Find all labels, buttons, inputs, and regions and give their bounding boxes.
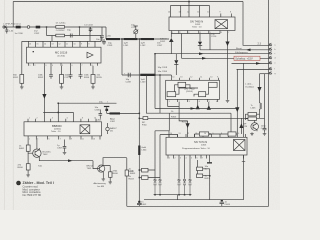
wire arrow from IC1 pin down to IC4 xyxy=(43,66,45,122)
svg-text:11: 11 xyxy=(66,44,68,46)
svg-text:15: 15 xyxy=(37,44,39,46)
svg-text:13: 13 xyxy=(93,138,95,140)
svg-text:8: 8 xyxy=(82,118,83,120)
svg-text:13: 13 xyxy=(179,133,181,135)
IC3 internal wiring xyxy=(175,85,209,97)
wire supply line y=63.4 to terminal xyxy=(232,62,270,64)
svg-text:C210: C210 xyxy=(211,36,217,38)
svg-text:C207: C207 xyxy=(157,45,163,47)
IC5 bottom pin ticks xyxy=(168,155,244,162)
wire IC2 bottom bus xyxy=(171,33,220,35)
filter F401 box on mid line xyxy=(143,117,148,120)
polarized cap C402 on x=139.3 xyxy=(138,201,140,203)
wire stub rail to IC2 bus xyxy=(188,2,190,6)
svg-text:14: 14 xyxy=(168,12,170,14)
svg-text:6: 6 xyxy=(216,101,217,103)
svg-text:L202: L202 xyxy=(141,45,147,47)
svg-text:10n C206: 10n C206 xyxy=(158,71,168,73)
svg-text:C211: C211 xyxy=(131,27,137,29)
resistor R405 xyxy=(125,170,128,176)
wire IF filter line xyxy=(122,75,171,78)
svg-text:6: 6 xyxy=(197,157,198,159)
wire long vertical x=139.3 lower part xyxy=(138,113,140,203)
svg-text:16: 16 xyxy=(29,44,31,46)
IC4 top pin ticks xyxy=(28,119,96,122)
IC3 gate A xyxy=(178,82,186,87)
svg-text:2.3: 2.3 xyxy=(258,43,262,46)
svg-text:C307: C307 xyxy=(57,148,63,150)
supply bar below IC5 pin xyxy=(207,162,212,163)
vertical from IC2 pin 5 xyxy=(209,34,211,50)
svg-text:10: 10 xyxy=(207,12,209,14)
capacitor C204 on line A xyxy=(89,27,93,32)
node junction IF line / verticals xyxy=(154,74,155,75)
resistor R411 right below IC5 xyxy=(197,174,203,178)
wire T401 collector up and right xyxy=(103,158,127,166)
svg-text:Teiler : 10: Teiler : 10 xyxy=(192,26,202,29)
red box switching voltage xyxy=(234,56,260,60)
svg-text:10: 10 xyxy=(204,133,206,135)
svg-text:2: 2 xyxy=(35,65,36,67)
wire jogs from IC3 area to trimmer verticals xyxy=(155,131,178,138)
svg-text:13: 13 xyxy=(179,12,181,14)
svg-text:Oszillator: Oszillator xyxy=(245,86,254,89)
svg-text:C306: C306 xyxy=(95,109,101,111)
inductor L201 black bar xyxy=(124,38,138,40)
svg-text:C1 C204: C1 C204 xyxy=(84,25,93,27)
svg-text:No.7509 377 80: No.7509 377 80 xyxy=(23,193,42,197)
capacitor C307 below IC4 xyxy=(63,140,67,152)
svg-text:Teiler : 10: Teiler : 10 xyxy=(51,130,61,133)
svg-text:3: 3 xyxy=(37,138,38,140)
svg-text:L405: L405 xyxy=(251,107,257,109)
trimmer column 3 xyxy=(178,159,180,179)
wire count frequency line to terminal xyxy=(155,53,269,55)
node junctions line A xyxy=(46,26,47,27)
wire reset arrow into IC5 xyxy=(179,102,188,137)
svg-text:7: 7 xyxy=(228,32,229,34)
svg-text:R400: R400 xyxy=(18,167,24,169)
svg-text:R403: R403 xyxy=(129,178,135,180)
svg-text:C213: C213 xyxy=(65,77,71,79)
trimmer column 5 xyxy=(189,159,191,179)
wire input line A xyxy=(4,26,106,28)
svg-text:2: 2 xyxy=(175,157,176,159)
svg-text:R202: R202 xyxy=(38,77,44,79)
svg-text:7: 7 xyxy=(202,157,203,159)
wires around R410/R411 xyxy=(198,160,210,200)
svg-text:R405: R405 xyxy=(130,173,136,175)
page fold lines xyxy=(4,0,6,210)
svg-text:Reset: Reset xyxy=(236,47,242,50)
node junctions between bars xyxy=(121,38,123,40)
transistor T400 xyxy=(251,123,259,131)
wire trimmer bus xyxy=(154,194,192,196)
title block logo xyxy=(16,181,21,186)
svg-text:9: 9 xyxy=(71,138,72,140)
IC2 divider crossed box xyxy=(215,20,228,29)
svg-text:5: 5 xyxy=(62,65,63,67)
svg-text:R303: R303 xyxy=(171,117,177,119)
svg-text:Abstimmung: Abstimmung xyxy=(94,182,107,185)
wire left drop to input line xyxy=(12,2,14,28)
wire verticals B-C xyxy=(52,36,101,42)
wire bottom bus B xyxy=(127,205,269,207)
wire vertical A-C at 90 xyxy=(89,27,91,41)
diode up arrow from IC3 pin to mid line xyxy=(197,102,199,109)
wire vertical from IC3 pin1 down left of IC5 xyxy=(168,113,170,131)
capacitor C208 series bars on IF line xyxy=(128,73,130,78)
svg-text:5: 5 xyxy=(209,101,210,103)
svg-text:L200: L200 xyxy=(106,35,112,37)
connector circle on input line xyxy=(27,26,30,29)
inductor L203 black bar on IF line xyxy=(140,74,155,76)
resistor R403 left of IC5 xyxy=(142,176,149,180)
svg-text:8: 8 xyxy=(89,44,90,46)
wire IC2 top pin stubs xyxy=(171,6,232,18)
svg-text:13: 13 xyxy=(180,76,182,78)
IC3 top pin ticks xyxy=(171,78,218,81)
svg-text:12: 12 xyxy=(59,44,61,46)
inductor L200 black bar xyxy=(106,38,120,40)
IC1 amplifier MC10116 D200 body xyxy=(27,47,102,63)
svg-text:9: 9 xyxy=(220,12,221,14)
zener D205 above IC3 xyxy=(174,54,178,75)
svg-text:10: 10 xyxy=(210,76,212,78)
wire switching voltage line to terminal xyxy=(182,34,270,59)
svg-text:b: b xyxy=(275,49,276,51)
diode D203a below IC2 pin 11 xyxy=(198,34,202,50)
svg-text:L302: L302 xyxy=(110,121,116,123)
wire IC4 top bus xyxy=(43,103,73,122)
svg-text:R201: R201 xyxy=(13,77,19,79)
arrow down on pin 8 wire xyxy=(225,42,229,47)
svg-text:9: 9 xyxy=(81,44,82,46)
svg-text:R406: R406 xyxy=(113,173,119,175)
wire right page bus xyxy=(268,0,270,206)
IC3 bottom pin ticks xyxy=(168,99,218,102)
svg-text:SN 7490 N: SN 7490 N xyxy=(190,19,203,23)
resistor R410 right below IC5 xyxy=(197,167,203,170)
svg-text:C208: C208 xyxy=(126,82,132,84)
svg-text:12: 12 xyxy=(190,76,192,78)
wires from R402/R403 to trimmer columns xyxy=(148,170,160,178)
resistor R201 on line A xyxy=(56,26,65,29)
svg-text:1: 1 xyxy=(169,157,170,159)
svg-text:e: e xyxy=(275,63,276,65)
svg-text:L203: L203 xyxy=(141,82,147,84)
capacitor C205 series on line B xyxy=(70,34,72,38)
wire oscillator line y=73.7 to terminal xyxy=(260,73,270,75)
wire long mid horizontal xyxy=(139,117,264,119)
IC3 gate C xyxy=(167,92,176,97)
svg-text:2: 2 xyxy=(180,32,181,34)
wire choke line xyxy=(107,112,140,114)
svg-text:T402: T402 xyxy=(43,154,49,156)
svg-text:C202: C202 xyxy=(34,33,40,35)
transistor T401 xyxy=(98,165,105,172)
capacitor to bus C at x=102 xyxy=(100,27,104,41)
trimmer C211 above rail xyxy=(134,26,138,39)
svg-text:6: 6 xyxy=(67,118,68,120)
svg-text:2: 2 xyxy=(179,101,180,103)
IC4 divider BB8060 D400 body xyxy=(24,122,102,136)
svg-text:6: 6 xyxy=(238,133,239,135)
IC4 divider crossed box xyxy=(80,125,90,134)
wire IC2 top bus xyxy=(171,5,210,7)
svg-text:3: 3 xyxy=(188,32,189,34)
svg-text:7: 7 xyxy=(60,138,61,140)
svg-text:11: 11 xyxy=(196,133,198,135)
resistor R400 below xyxy=(26,164,30,170)
IC1 internal dot xyxy=(33,51,34,52)
svg-text:v. ZFM -Filterverst.: v. ZFM -Filterverst. xyxy=(3,22,22,25)
svg-text:D202: D202 xyxy=(160,41,166,43)
svg-text:1: 1 xyxy=(29,138,30,140)
svg-text:4: 4 xyxy=(186,157,187,159)
svg-text:11: 11 xyxy=(197,12,199,14)
diode D6 right of IC4 xyxy=(106,127,109,130)
resistor R401 below IC4 xyxy=(26,145,30,151)
capacitor C305 to IC4 pin xyxy=(99,110,103,119)
IC1 internal buffer triangle xyxy=(87,52,93,58)
capacitor C209 to ground left of bar xyxy=(102,39,106,45)
node junction on IC4 bus xyxy=(58,112,60,114)
wire IC3 enclosure loop to mid-right xyxy=(146,75,231,113)
wire vertical x=155 count feed xyxy=(154,54,156,75)
svg-text:4: 4 xyxy=(52,118,53,120)
IC2 counter SN7490 D203 body xyxy=(169,17,235,31)
svg-text:5: 5 xyxy=(49,138,50,140)
svg-text:(D400): (D400) xyxy=(54,129,61,131)
svg-text:4: 4 xyxy=(52,65,53,67)
svg-text:6: 6 xyxy=(72,65,73,67)
wire bus C above IC1 xyxy=(22,40,101,42)
svg-text:7: 7 xyxy=(82,65,83,67)
svg-text:C305: C305 xyxy=(96,120,102,122)
IC3 quad gate SN7400 D204 body xyxy=(166,80,220,99)
svg-text:a: a xyxy=(275,44,276,46)
wire osc vertical x=264.5 xyxy=(264,74,266,129)
svg-text:14: 14 xyxy=(172,76,174,78)
IC5 divider crossed box xyxy=(234,140,246,151)
svg-text:(D 200): (D 200) xyxy=(58,56,66,58)
svg-text:12: 12 xyxy=(187,133,189,135)
svg-text:SN 7474 N: SN 7474 N xyxy=(194,140,207,144)
IC3 gate D xyxy=(199,92,206,97)
terminal row right edge xyxy=(269,43,272,46)
svg-text:3: 3 xyxy=(180,157,181,159)
IC5 programmable divider SN7474 D405 body xyxy=(166,137,247,155)
svg-text:Reset: Reset xyxy=(182,121,188,124)
svg-text:R402: R402 xyxy=(129,171,135,173)
trimmer column 2 xyxy=(159,75,161,113)
svg-text:1: 1 xyxy=(29,118,30,120)
svg-text:C403: C403 xyxy=(225,204,231,206)
svg-text:(D204): (D204) xyxy=(186,91,193,93)
capacitor C403 xyxy=(221,200,223,202)
svg-text:C4 R202: C4 R202 xyxy=(56,30,65,32)
svg-text:c: c xyxy=(275,53,276,55)
resistor R402 left of IC5 xyxy=(142,168,149,172)
svg-text:Schaltsp. +15V: Schaltsp. +15V xyxy=(235,57,253,61)
arrow right on count line xyxy=(199,52,204,55)
svg-text:C209: C209 xyxy=(107,45,113,47)
wire line y=69.4 to terminal xyxy=(237,68,270,70)
svg-text:Dr. L200a: Dr. L200a xyxy=(56,21,66,24)
ground at end of pin 8 wire xyxy=(226,99,230,102)
svg-text:11: 11 xyxy=(82,138,84,140)
node junction choke/long vertical xyxy=(139,113,141,115)
wire branch line B xyxy=(47,35,102,37)
svg-text:14: 14 xyxy=(170,133,172,135)
coil L405 xyxy=(260,103,262,113)
svg-text:BB8060: BB8060 xyxy=(52,124,62,128)
wire up arrow right of IC5 xyxy=(240,118,242,134)
svg-text:12: 12 xyxy=(187,12,189,14)
svg-text:Zählfrequenz: Zählfrequenz xyxy=(235,51,248,54)
supply bar above IC4 right xyxy=(104,106,109,107)
svg-text:8: 8 xyxy=(92,65,93,67)
svg-text:3: 3 xyxy=(189,101,190,103)
svg-text:1: 1 xyxy=(172,32,173,34)
svg-text:1n C200: 1n C200 xyxy=(15,33,24,35)
wire long vertical x=139.3 xyxy=(138,40,140,113)
svg-text:Takt: Takt xyxy=(38,165,42,168)
cap to ground under input terminal xyxy=(5,27,8,34)
svg-text:bis 6M: bis 6M xyxy=(98,186,105,188)
svg-text:Filter: Filter xyxy=(142,123,147,126)
input terminal J1 xyxy=(3,26,5,28)
svg-text:14: 14 xyxy=(44,44,46,46)
svg-text:10: 10 xyxy=(74,44,76,46)
svg-text:8: 8 xyxy=(221,133,222,135)
svg-text:5: 5 xyxy=(191,157,192,159)
wire right drop to terminal 1 xyxy=(243,2,269,46)
wire IC1 pin stubs from bus C xyxy=(29,41,96,47)
inductor L304 black vertical bar xyxy=(138,146,140,156)
wire inductor rail xyxy=(106,38,169,40)
svg-text:R411: R411 xyxy=(205,178,211,180)
wire reset line to terminal xyxy=(200,49,269,51)
wire emitter of T402 to the right with arrow xyxy=(39,157,93,161)
oscillator branch arrow and coil xyxy=(259,74,261,103)
wire from terminal row down into IC5 with arrow xyxy=(236,69,238,134)
svg-text:L304: L304 xyxy=(142,150,148,152)
svg-text:L201: L201 xyxy=(124,45,130,47)
trimmer column 4 xyxy=(184,159,186,179)
svg-text:8: 8 xyxy=(230,12,231,14)
diode up arrow 2 from IC3 pin xyxy=(208,102,210,109)
svg-text:1: 1 xyxy=(30,65,31,67)
svg-text:MC 10116: MC 10116 xyxy=(55,51,68,55)
svg-text:T401: T401 xyxy=(87,168,93,170)
wires linking boxes above IC5 xyxy=(195,134,238,137)
svg-text:9: 9 xyxy=(217,76,218,78)
svg-text:6: 6 xyxy=(221,32,222,34)
arrow right on switching line xyxy=(202,57,207,60)
wire R402 from long vertical xyxy=(139,169,141,171)
svg-text:3: 3 xyxy=(45,65,46,67)
inductor L302 black bar xyxy=(110,112,121,114)
inductor L202 black bar xyxy=(141,38,155,40)
capacitor C202 black body xyxy=(36,26,41,29)
svg-text:C410: C410 xyxy=(261,128,267,130)
vertical resistors below IC1 xyxy=(60,75,64,84)
svg-text:4: 4 xyxy=(199,101,200,103)
wire top rail xyxy=(13,1,243,3)
IC4 bottom pin ticks xyxy=(28,136,100,140)
terminal pin letters right margin xyxy=(275,44,276,74)
svg-text:D203: D203 xyxy=(195,24,201,26)
svg-text:10µ C209: 10µ C209 xyxy=(158,67,168,69)
svg-text:SN 7400: SN 7400 xyxy=(184,87,195,91)
junction tick on bus A vertical xyxy=(242,161,245,163)
wire horizontal count line 23a xyxy=(58,102,116,104)
arrow right on loop wire xyxy=(191,107,196,110)
transistor T402 xyxy=(33,149,41,157)
wire riser trimmer bus to bus A xyxy=(177,195,179,200)
node junction filter line xyxy=(139,118,141,120)
svg-text:11: 11 xyxy=(200,76,202,78)
cap marks below IC1 xyxy=(49,66,83,79)
wire verticals right column xyxy=(243,63,245,137)
svg-text:1: 1 xyxy=(169,101,170,103)
wire bottom bus A xyxy=(144,155,244,200)
resistor box B above IC5 xyxy=(228,132,236,136)
svg-text:9: 9 xyxy=(213,133,214,135)
wire R403 from long vertical xyxy=(139,177,141,179)
node junction on rail xyxy=(188,1,190,3)
svg-text:4: 4 xyxy=(200,32,201,34)
wire verticals A-B xyxy=(47,27,80,36)
svg-text:Programmierbarer Teiler : 10: Programmierbarer Teiler : 10 xyxy=(182,147,211,150)
arrow left on reset line xyxy=(246,49,251,52)
svg-text:R204: R204 xyxy=(84,77,90,79)
svg-text:R205: R205 xyxy=(97,77,103,79)
IC3 gate B xyxy=(209,82,218,87)
wire vertical junction to IF line xyxy=(121,40,123,76)
resistor R406 xyxy=(109,172,113,178)
svg-text:D405: D405 xyxy=(201,145,207,147)
svg-text:g: g xyxy=(275,73,276,75)
resistor R201 vertical left of IC1 xyxy=(21,41,23,85)
pin numbers IC1 top xyxy=(29,44,239,160)
svg-text:13: 13 xyxy=(52,44,54,46)
diode D202 below IC2 pin 1 xyxy=(169,34,173,54)
arrow right on supply line xyxy=(256,62,261,65)
box pair R407 xyxy=(248,113,257,116)
svg-text:10: 10 xyxy=(94,118,96,120)
svg-text:d: d xyxy=(275,57,276,59)
IC5 top pin ticks xyxy=(169,134,246,137)
ground below T400 xyxy=(250,132,254,135)
svg-text:C402: C402 xyxy=(141,204,147,206)
svg-text:Zähler - Mod. Teil I: Zähler - Mod. Teil I xyxy=(23,181,54,185)
IC1 bottom pin ticks xyxy=(29,63,98,66)
svg-text:R401: R401 xyxy=(19,148,25,150)
IC2 bottom pin stubs xyxy=(171,31,227,100)
capacitor C200 black body xyxy=(16,26,21,29)
svg-text:v. abst.-: v. abst.- xyxy=(245,83,253,86)
wire bend line A to inductor rail xyxy=(105,27,107,39)
trimmer column 1 xyxy=(154,131,156,179)
resistor box A above IC5 xyxy=(199,132,208,136)
capacitor C410 bars and ground xyxy=(263,128,267,132)
svg-text:2: 2 xyxy=(37,118,38,120)
resistor R202 on line B xyxy=(56,34,65,37)
